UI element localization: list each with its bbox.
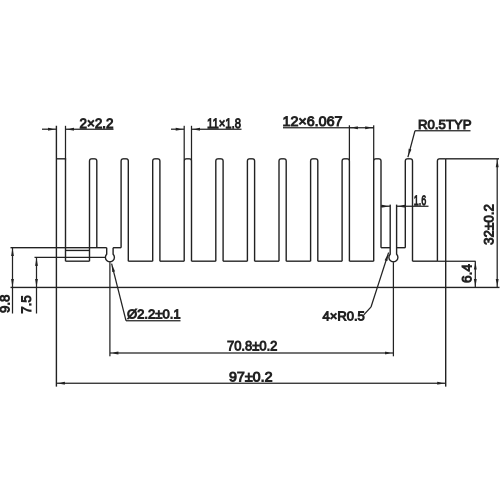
neck ledge left of slot B	[381, 247, 390, 249]
neck right wall slot A	[112, 248, 114, 255]
dim 6.4 line with arrows	[474, 261, 476, 287]
label R0.5TYP underline	[415, 130, 471, 132]
dim 9.8 tail below	[12, 287, 14, 313]
extension line hole B centre down	[392, 263, 394, 357]
fin 10	[342, 159, 349, 261]
svg-text:9.8: 9.8	[0, 294, 13, 313]
slot bottom between fin 7 and fin 8	[255, 260, 279, 262]
left edge of heatsink (extends down as 97 extension line)	[55, 126, 57, 387]
svg-text:7.5: 7.5	[18, 295, 34, 314]
svg-text:4×R0.5: 4×R0.5	[323, 308, 365, 323]
slot bottom between fin 9 and fin 10	[318, 260, 342, 262]
dim 12x6.067 line	[283, 127, 374, 129]
extension line for 6.4 (slot bottom level)	[437, 260, 475, 262]
neck ledge left of slot A (with 9.8 extension line)	[11, 247, 107, 249]
dim 70.8 line with arrows	[110, 352, 394, 354]
leader R0.5TYP with arrow to fin12 corner	[408, 131, 415, 158]
leader O2.2 arrow to hole A	[112, 264, 126, 321]
extension line fin1 right for 2x2.2	[65, 126, 67, 161]
leader 4xR0.5 stub	[364, 307, 371, 315]
dim 2x2.2 left tail with arrow	[42, 128, 56, 130]
extension: ledge level line is drawn above; dim 9.8 line with arrows	[12, 248, 14, 288]
slot bottom between fin 4 and fin 5	[160, 260, 184, 262]
svg-text:32±0.2: 32±0.2	[481, 204, 497, 245]
fin 12	[405, 159, 412, 261]
fin 9	[311, 159, 318, 261]
svg-text:Ø2.2±0.1: Ø2.2±0.1	[127, 307, 181, 322]
dim 32 line with arrows	[496, 159, 498, 288]
extension line fin5 left for 11x1.8	[183, 126, 185, 161]
dim 1.6 left tail with arrow	[381, 205, 390, 207]
label O2.2 underline	[126, 320, 181, 322]
fin 6	[216, 159, 223, 261]
top right extension line for 32 dim	[446, 158, 499, 160]
dim 7.5 line with arrows	[36, 257, 38, 287]
neck right wall slot B (extends up as 1.6 extension line)	[396, 205, 398, 255]
right edge of heatsink (extends down as 97 extension line)	[445, 159, 447, 387]
svg-text:R0.5TYP: R0.5TYP	[418, 117, 472, 132]
fin 1	[56, 159, 65, 261]
fin 13 (right block)	[437, 159, 445, 261]
dim 7.5 tail below	[36, 287, 38, 313]
fin 7	[247, 159, 254, 261]
dim 12x6.067 arrow left	[349, 127, 358, 129]
dim 11x1.8 right tail with arrow	[192, 128, 242, 130]
fin 2	[90, 159, 97, 261]
fin 3	[121, 159, 128, 261]
slot bottom between fin 3 and fin 4	[128, 260, 152, 262]
fin 11	[374, 159, 381, 261]
extension line fin11 left for 12x6.067	[373, 125, 375, 161]
svg-text:97±0.2: 97±0.2	[229, 368, 273, 384]
extension line fin10 right for 12x6.067	[348, 125, 350, 161]
slot bottom between fin 1 and fin 2	[66, 260, 90, 262]
base bottom edge (extends both sides as extension line)	[11, 286, 500, 288]
svg-text:11×1.8: 11×1.8	[207, 115, 241, 131]
hole circle A (O2.2)	[105, 254, 114, 262]
leader 4xR0.5 with arrow to hole B	[371, 253, 389, 307]
dim 2x2.2 right tail with arrow	[66, 128, 114, 130]
dim 11x1.8 left tail with arrow	[171, 128, 184, 130]
channel step line in slot between fin 1 and fin 2	[66, 249, 90, 251]
hole circle B (4xR0.5)	[389, 254, 398, 262]
svg-text:12×6.067: 12×6.067	[283, 113, 343, 129]
neck ledge right of slot B	[397, 247, 406, 249]
fin 5	[184, 159, 191, 261]
extension line hole A centre down	[109, 263, 111, 357]
slot bottom between fin 10 and fin 11	[349, 260, 373, 262]
extension line fin5 right for 11x1.8	[191, 126, 193, 161]
svg-text:6.4: 6.4	[459, 264, 475, 283]
dim 1.6 right tail with arrow and underline	[397, 205, 429, 207]
dim 97 line with arrows	[56, 382, 445, 384]
extension line for 7.5 (hole centre level)	[35, 256, 106, 258]
svg-text:1.6: 1.6	[414, 192, 427, 208]
slot bottom between fin 12 and fin 13	[413, 260, 438, 262]
fin 8	[279, 159, 286, 261]
svg-text:70.8±0.2: 70.8±0.2	[227, 337, 278, 353]
fin 4	[153, 159, 160, 261]
neck left wall slot B (extends up as 1.6 extension line)	[389, 205, 391, 255]
slot bottom between fin 8 and fin 9	[286, 260, 310, 262]
slot bottom between fin 6 and fin 7	[223, 260, 247, 262]
dim 12x6.067 arrow right	[365, 127, 374, 129]
neck left wall slot A	[106, 248, 108, 255]
slot bottom between fin 5 and fin 6	[192, 260, 216, 262]
svg-text:2×2.2: 2×2.2	[80, 115, 114, 131]
neck ledge right of slot A	[113, 247, 121, 249]
